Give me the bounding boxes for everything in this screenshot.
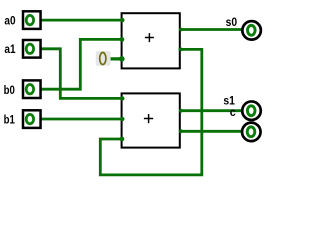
svg-text:b0: b0	[4, 83, 15, 97]
svg-text:b1: b1	[4, 113, 15, 127]
svg-text:a0: a0	[4, 14, 15, 28]
svg-text:s0: s0	[226, 15, 238, 29]
svg-text:a1: a1	[4, 42, 15, 56]
svg-text:c: c	[230, 105, 236, 119]
